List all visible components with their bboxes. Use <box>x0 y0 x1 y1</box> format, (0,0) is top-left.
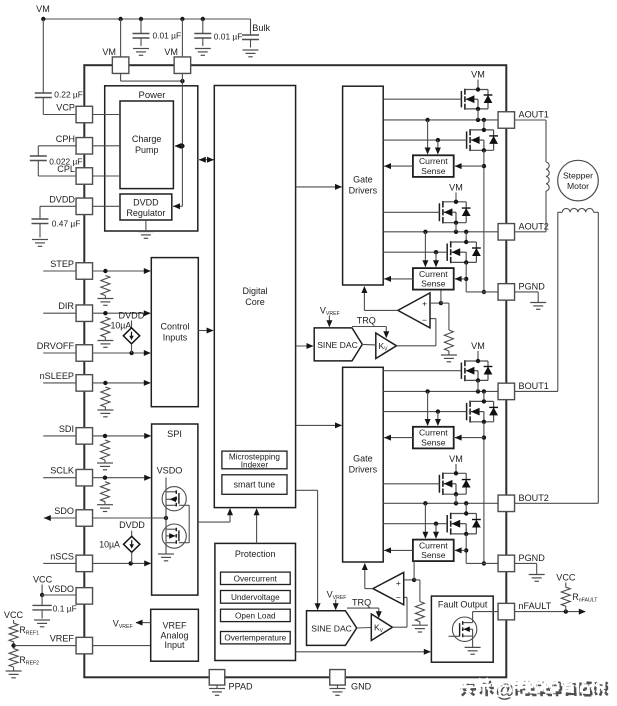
svg-text:SINE DAC: SINE DAC <box>311 624 352 634</box>
wire gate AOUT1 HS <box>383 98 461 100</box>
block Gate Drivers B <box>343 367 384 562</box>
motor symbol Stepper Motor <box>558 160 599 201</box>
svg-text:0.01 µF: 0.01 µF <box>153 31 182 41</box>
svg-text:Gate: Gate <box>353 175 373 185</box>
ground (PGND B) <box>529 574 545 576</box>
wire Control Inputs to Digital Core <box>198 330 213 332</box>
wire coil B to BOUT2 <box>594 211 599 213</box>
wire AOUT1 source into Current Sense <box>455 165 484 167</box>
wire STEP to Control Inputs <box>93 270 150 272</box>
svg-text:nSLEEP: nSLEEP <box>40 371 74 381</box>
wire Protection to Digital Core <box>256 509 258 543</box>
svg-text:STEP: STEP <box>50 259 74 269</box>
svg-text:SDI: SDI <box>59 424 74 434</box>
op-amp comparator A (ITRIP) <box>398 293 430 328</box>
resistor DIR pulldown <box>101 317 110 337</box>
svg-text:VSDO: VSDO <box>157 466 183 476</box>
svg-text:VCC: VCC <box>556 572 576 582</box>
amplifier Kv B <box>371 614 392 641</box>
wire Current Sense A1 to Gate Drivers <box>384 165 413 167</box>
pin SCLK <box>43 477 76 479</box>
svg-text:0.01 µF: 0.01 µF <box>214 32 243 42</box>
svg-text:VM: VM <box>449 183 463 193</box>
wire BOUT2 LS source to PGND rail <box>465 534 467 564</box>
ground (Power block) <box>138 231 154 233</box>
pin nSCS <box>43 562 76 564</box>
ground (SCLK pulldown) <box>97 504 113 506</box>
wire gate BOUT2 LS <box>383 523 447 525</box>
wire Fault Output drain to nFAULT <box>472 612 474 623</box>
wire VCP to Charge Pump <box>93 114 120 116</box>
pin CPH <box>76 138 93 155</box>
pin VM2 (top) <box>174 57 191 73</box>
svg-text:CPH: CPH <box>56 134 75 144</box>
wire gate BOUT1 LS <box>383 411 466 413</box>
wire nFAULT output <box>515 611 586 613</box>
wire gate AOUT2 HS <box>383 211 439 213</box>
pin nSLEEP <box>43 382 76 384</box>
ground (VREF divider) <box>6 670 22 672</box>
capacitor 0.022 uF (CPH-CPL) <box>30 155 47 157</box>
svg-text:Pump: Pump <box>135 145 159 155</box>
transistor AOUT1 low-side (with body diode) <box>466 131 468 148</box>
pin SDO <box>44 517 76 519</box>
wire AOUT2 source into Current Sense <box>455 278 466 280</box>
ground (PPAD) <box>209 688 225 690</box>
wire Digital Core to SINE DAC B (routing) <box>296 489 318 491</box>
svg-text:10µA: 10µA <box>99 540 120 550</box>
transistor VSDO low-side (NMOS in circle) <box>162 524 186 548</box>
block VREF Analog Input <box>151 609 199 661</box>
wire Digital Core to Gate Drivers A <box>296 186 342 188</box>
pin SDI <box>43 435 76 437</box>
wire arrow VM bus into Charge Pump <box>175 145 182 147</box>
pin GND <box>330 670 346 686</box>
wire AOUT1 sense taps into Current Sense <box>427 120 429 154</box>
pin BOUT1 <box>498 383 515 400</box>
block Gate Drivers A <box>343 86 384 285</box>
wire Current Sense B1 to Gate Drivers <box>384 437 413 439</box>
svg-text:PPAD: PPAD <box>229 682 254 692</box>
block Undervoltage <box>221 591 291 604</box>
resistor STEP pulldown <box>101 276 110 296</box>
svg-text:Current: Current <box>419 541 448 551</box>
svg-text:Indexer: Indexer <box>241 460 269 469</box>
wire VM rail drop to VM pin 2 <box>181 19 183 57</box>
pin STEP <box>43 270 76 272</box>
wire sense node B to resistor B <box>414 579 420 581</box>
wire 0.22uF to VCP pin <box>42 98 44 115</box>
wire VM top rail <box>43 18 250 20</box>
wire arrow VM bus into DVDD Regulator <box>173 205 182 207</box>
wire SPI to Digital Core <box>198 521 230 523</box>
block Control Inputs <box>151 258 198 407</box>
wire Kv B to comparator B minus <box>392 626 407 628</box>
ground (Fault Output) <box>465 646 481 648</box>
svg-text:nFAULT: nFAULT <box>519 601 552 611</box>
svg-text:Sense: Sense <box>421 550 446 560</box>
transistor AOUT2 low-side (with body diode) <box>446 244 448 261</box>
ground (DIR pulldown) <box>97 340 113 342</box>
wire CPL to Charge Pump <box>93 175 120 177</box>
wire VVREF output of VREF Analog Input <box>136 622 151 624</box>
svg-text:AOUT2: AOUT2 <box>519 221 549 231</box>
pin DIR <box>43 312 76 314</box>
svg-text:Digital: Digital <box>242 286 267 296</box>
wire AOUT2 sense taps into Current Sense <box>424 232 426 266</box>
svg-text:DVDD: DVDD <box>119 311 145 321</box>
wire nSCS to SPI <box>93 562 151 564</box>
svg-text:DVDD: DVDD <box>49 194 75 204</box>
resistor RREF1 <box>9 623 18 642</box>
block Current Sense A1 <box>413 155 454 177</box>
capacitor 0.47 uF (DVDD) <box>32 218 49 220</box>
wire SCLK to SPI <box>93 477 151 479</box>
wire Digital Core to SINE DAC A <box>296 345 313 347</box>
watermark 头条@鹏蹲蹲有话说 (stylised strokes) <box>457 678 607 703</box>
pin VM1 (top) <box>112 57 129 73</box>
svg-text:VSDO: VSDO <box>48 584 74 594</box>
wire nSLEEP to Control Inputs <box>93 382 150 384</box>
svg-text:CPL: CPL <box>57 164 75 174</box>
svg-text:Protection: Protection <box>235 549 276 559</box>
block Fault Output <box>431 596 493 662</box>
svg-text:Motor: Motor <box>567 181 589 191</box>
svg-text:SCLK: SCLK <box>50 466 74 476</box>
wire gate BOUT2 HS <box>383 483 439 485</box>
svg-text:Bulk: Bulk <box>252 23 270 33</box>
wire divider to VREF pin <box>14 645 76 647</box>
block Protection <box>215 543 296 660</box>
wire Current Sense B2 to Gate Drivers <box>384 549 413 551</box>
svg-text:DRVOFF: DRVOFF <box>37 341 75 351</box>
transistor BOUT2 high-side (with body diode) <box>438 475 440 493</box>
wire bidirectional Power - Digital Core <box>199 159 214 161</box>
svg-text:VM: VM <box>449 454 463 464</box>
pin AOUT1 <box>498 112 515 129</box>
wire BOUT2 node <box>383 502 498 504</box>
wire SDI to SPI <box>93 435 151 437</box>
wire AOUT1 node <box>383 119 498 121</box>
svg-text:VREF: VREF <box>50 634 75 644</box>
svg-text:SINE DAC: SINE DAC <box>317 340 358 350</box>
block SINE DAC A <box>314 328 362 361</box>
svg-text:0.22 µF: 0.22 µF <box>54 90 83 100</box>
svg-text:nSCS: nSCS <box>50 551 74 561</box>
wire BOUT1 LS source to PGND rail <box>483 422 485 564</box>
svg-text:10µA: 10µA <box>111 320 132 330</box>
svg-text:Overcurrent: Overcurrent <box>234 574 278 583</box>
block SINE DAC B <box>307 611 357 646</box>
pin PGND B <box>498 555 515 572</box>
capacitor 0.22 uF (VCP flying) <box>35 92 52 94</box>
svg-text:PGND: PGND <box>519 553 546 563</box>
node VREF divider tap <box>13 642 15 649</box>
wire Protection to Fault Output <box>296 651 431 653</box>
wire BOUT2 source into Current Sense <box>455 549 466 551</box>
wire sense node to Current Sense A2 <box>440 290 442 304</box>
wire 0.022uF to CPL <box>37 161 39 177</box>
wire BOUT1 node <box>383 390 498 392</box>
wire DVDD Regulator to ground <box>145 220 147 232</box>
svg-text:−: − <box>422 315 427 325</box>
wire DRVOFF to Control Inputs <box>93 352 150 354</box>
wire comparator A plus input <box>430 302 441 304</box>
svg-text:Input: Input <box>164 640 185 650</box>
ground (STEP pulldown) <box>97 298 113 300</box>
svg-text:DIR: DIR <box>58 301 74 311</box>
wire sense node to resistor A <box>441 302 449 304</box>
wire BOUT1 to motor coil B <box>515 390 558 392</box>
transistor BOUT1 low-side (with body diode) <box>466 403 468 420</box>
wire DIR to Control Inputs <box>93 312 150 314</box>
svg-text:0.47 µF: 0.47 µF <box>52 219 81 229</box>
wire AOUT1 to motor coil A <box>515 119 547 121</box>
wire Kv A to comparator A minus <box>397 345 436 347</box>
pin VCP <box>76 106 93 123</box>
svg-text:Control: Control <box>160 322 189 332</box>
svg-text:GND: GND <box>351 682 372 692</box>
wire TRQ into Kv B <box>347 607 379 609</box>
svg-text:@: @ <box>493 678 512 700</box>
wire PGND B to ground <box>515 562 537 564</box>
wire VM rail drop to VM pin 1 <box>120 19 122 57</box>
ground (VSDO cap) <box>34 619 50 621</box>
amplifier Kv A <box>376 333 397 359</box>
wire PGND rail B <box>466 562 498 564</box>
svg-text:Sense: Sense <box>421 166 446 176</box>
capacitor 0.1 uF (VSDO) <box>41 595 43 605</box>
wire PGND A to ground <box>515 291 539 293</box>
wire AOUT1 LS source to PGND rail <box>483 150 485 292</box>
ground (nSLEEP pulldown) <box>97 409 113 411</box>
wire sense node B to Current Sense B2 <box>413 561 415 580</box>
wire DVDD to 0.47uF <box>40 205 76 207</box>
wire BOUT2 sense taps into Current Sense <box>424 503 426 538</box>
ground (resistor B) <box>412 624 428 626</box>
ground (DVDD cap) <box>32 239 48 241</box>
svg-text:Inputs: Inputs <box>163 333 188 343</box>
svg-text:−: − <box>396 593 401 603</box>
pin VSDO <box>76 588 93 605</box>
resistor SCLK pulldown <box>101 482 110 502</box>
block DVDD Regulator <box>120 194 172 220</box>
svg-text:Analog: Analog <box>160 631 188 641</box>
svg-text:VREF: VREF <box>162 621 187 631</box>
pin BOUT2 <box>498 495 515 512</box>
block Open Load <box>221 609 291 621</box>
resistor B (ITRIP ref) <box>415 602 424 622</box>
transistor AOUT1 high-side (with body diode) <box>460 91 462 107</box>
transistor Fault Output (NMOS in circle) <box>452 617 476 641</box>
wire TRQ into Kv A <box>352 326 386 328</box>
pin nFAULT <box>498 603 515 620</box>
ground (VSDO totem) <box>165 553 167 554</box>
svg-text:Core: Core <box>245 297 265 307</box>
ground (GND) <box>330 688 346 690</box>
wire VM rail left drop to 0.22uF <box>42 19 44 93</box>
svg-text:Sense: Sense <box>421 279 446 289</box>
ground (PGND A) <box>530 302 546 304</box>
transistor BOUT1 high-side (with body diode) <box>460 363 462 379</box>
inductor coil B (horizontal) <box>562 208 593 212</box>
svg-text:AOUT1: AOUT1 <box>519 110 549 120</box>
svg-text:VM: VM <box>471 70 485 80</box>
pin AOUT2 <box>498 224 515 241</box>
svg-text:VM: VM <box>36 4 50 14</box>
op-amp comparator B (ITRIP) <box>373 572 404 604</box>
ground (resistor A) <box>441 354 457 356</box>
svg-text:Drivers: Drivers <box>349 465 378 475</box>
resistor A (ITRIP ref) <box>444 330 453 351</box>
wire comparator A output to Gate Drivers A <box>364 309 398 311</box>
pin PPAD <box>209 670 225 686</box>
transistor BOUT2 low-side (with body diode) <box>446 515 448 532</box>
pin CPL <box>76 168 93 185</box>
svg-text:DVDD: DVDD <box>119 520 145 530</box>
wire gate BOUT1 HS <box>383 370 461 372</box>
wire AOUT2 LS source to PGND rail <box>465 262 467 292</box>
block Overcurrent <box>221 572 291 584</box>
block smart tune <box>222 475 287 495</box>
svg-text:Fault Output: Fault Output <box>438 599 488 609</box>
wire DVDD to DVDD Regulator <box>93 205 120 207</box>
svg-text:Current: Current <box>419 156 448 166</box>
wire VVREF into SINE DAC B <box>335 600 337 609</box>
wire VREF to VREF Analog Input <box>93 645 151 647</box>
svg-text:Power: Power <box>139 90 166 101</box>
wire gate AOUT2 LS <box>383 251 447 253</box>
transistor AOUT2 high-side (with body diode) <box>438 203 440 221</box>
svg-text:Open Load: Open Load <box>235 611 276 620</box>
block Digital Core <box>214 86 295 508</box>
block Microstepping Indexer <box>222 451 287 469</box>
wire BOUT1 source into Current Sense <box>455 437 484 439</box>
wire Digital Core to Gate Drivers B <box>296 424 342 426</box>
svg-text:+: + <box>422 299 427 309</box>
svg-text:PGND: PGND <box>519 281 546 291</box>
svg-text:+: + <box>396 578 401 588</box>
wire PGND rail A <box>466 291 498 293</box>
block Overtemperature <box>221 632 291 644</box>
svg-text:VCC: VCC <box>4 610 24 620</box>
svg-text:Current: Current <box>419 269 448 279</box>
transistor VSDO high-side (PMOS in circle) <box>162 487 186 511</box>
wire VM pins to internal VM bus <box>120 74 122 82</box>
wire VSDO totem rail <box>165 478 167 553</box>
svg-text:Undervoltage: Undervoltage <box>231 593 280 602</box>
svg-text:TRQ: TRQ <box>357 316 376 326</box>
pin VREF <box>76 637 93 654</box>
pin DVDD <box>76 198 93 215</box>
wire coil A to AOUT2 <box>545 191 547 232</box>
svg-text:BOUT2: BOUT2 <box>519 493 549 503</box>
wire Fault Output source to ground <box>472 636 474 647</box>
svg-text:BOUT1: BOUT1 <box>519 381 549 391</box>
svg-text:Current: Current <box>419 428 448 438</box>
block Charge Pump <box>120 101 173 189</box>
svg-text:smart tune: smart tune <box>234 480 276 490</box>
svg-text:TRQ: TRQ <box>352 598 371 608</box>
svg-text:Stepper: Stepper <box>563 171 593 181</box>
wire CPH to 0.022uF <box>38 145 76 147</box>
svg-text:SPI: SPI <box>167 429 182 439</box>
block Current Sense B2 <box>413 540 454 562</box>
capacitor Bulk <box>250 19 252 35</box>
svg-text:0.1 µF: 0.1 µF <box>53 604 77 614</box>
svg-text:Charge: Charge <box>132 134 162 144</box>
block SPI <box>152 424 198 595</box>
inductor coil A (vertical) <box>546 162 549 191</box>
svg-text:VM: VM <box>471 341 485 351</box>
ground (SDI pulldown) <box>97 462 113 464</box>
capacitor 0.01 uF (first bypass) <box>140 19 142 34</box>
wire AOUT2 node <box>383 231 498 233</box>
svg-text:VCP: VCP <box>56 103 75 113</box>
block Current Sense B1 <box>413 427 454 449</box>
wire SINE DAC B to Kv B <box>357 627 372 630</box>
svg-text:Overtemperature: Overtemperature <box>224 634 286 643</box>
svg-text:VM: VM <box>102 47 116 57</box>
pin PGND A <box>498 284 515 301</box>
wire comparator B plus input <box>404 579 414 581</box>
svg-text:Gate: Gate <box>353 454 373 464</box>
resistor SDI pulldown <box>101 440 110 460</box>
resistor RnFAULT <box>561 587 570 606</box>
block Current Sense A2 <box>413 268 454 290</box>
wire CPH to Charge Pump <box>93 145 120 147</box>
resistor RREF2 <box>9 649 18 667</box>
svg-text:Drivers: Drivers <box>349 186 378 196</box>
wire VSDO gate tie <box>188 505 190 542</box>
wire comparator B output to Gate Drivers B <box>365 588 373 590</box>
chip outline (device boundary) <box>84 65 506 677</box>
wire VCC to VSDO pin <box>42 594 76 596</box>
wire Current Sense A2 to Gate Drivers <box>384 278 413 280</box>
wire BOUT1 sense taps into Current Sense <box>427 391 429 425</box>
svg-text:Sense: Sense <box>421 437 446 447</box>
wire SINE DAC A to Kv A <box>362 343 376 346</box>
wire SDO to VSDO push-pull node <box>93 517 166 519</box>
resistor nSLEEP pulldown <box>101 387 110 407</box>
svg-text:Regulator: Regulator <box>126 208 165 218</box>
block Power <box>105 86 198 231</box>
pin DRVOFF <box>43 352 76 354</box>
svg-text:SDO: SDO <box>54 506 74 516</box>
svg-text:DVDD: DVDD <box>133 197 159 207</box>
capacitor 0.01 uF (second bypass) <box>202 19 204 34</box>
wire gate AOUT1 LS <box>383 139 466 141</box>
wire VVREF into SINE DAC A <box>328 316 330 327</box>
svg-text:VM: VM <box>164 47 178 57</box>
